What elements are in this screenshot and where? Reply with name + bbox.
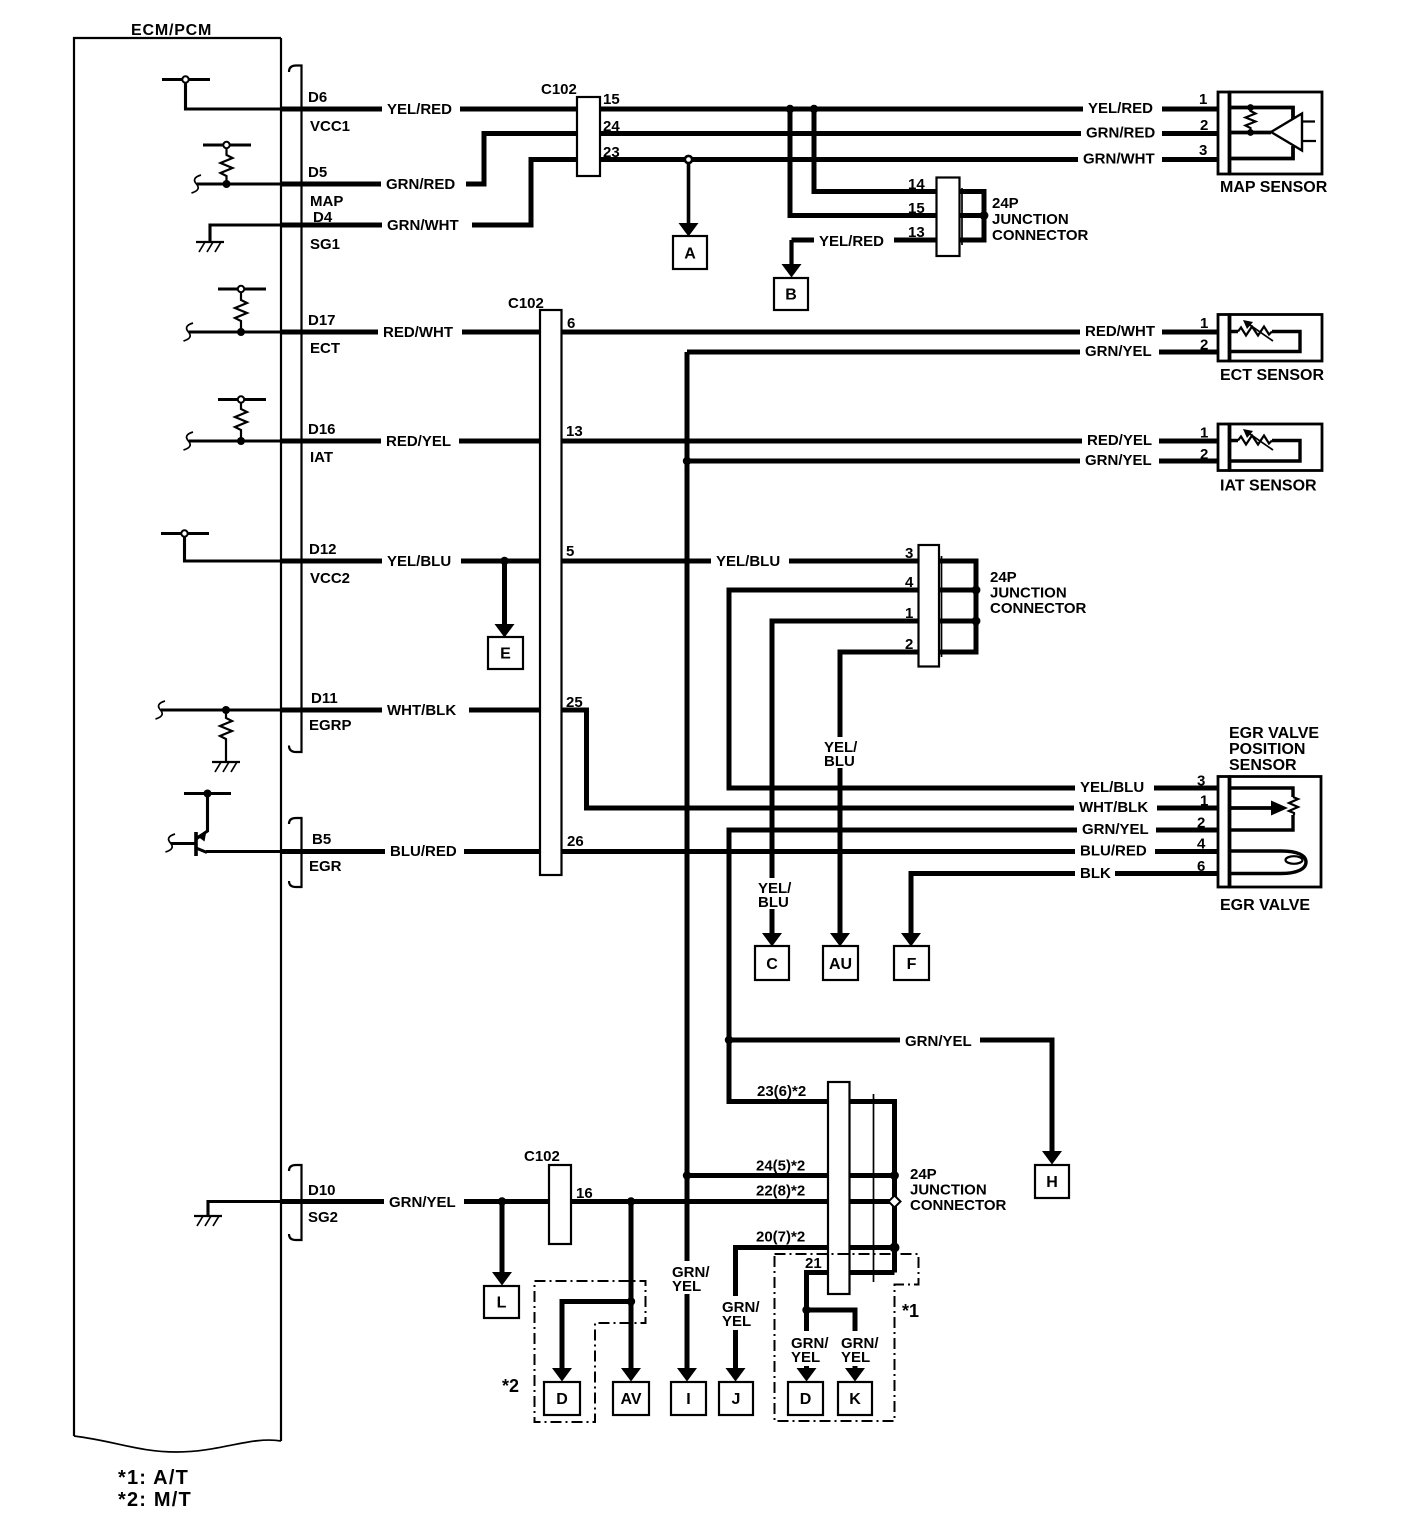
svg-text:3: 3 <box>1199 142 1207 159</box>
wire label WHT/BLK (EGR 1) <box>1074 799 1157 816</box>
svg-text:BLK: BLK <box>1080 865 1111 882</box>
node riser to IAT pin 2 <box>683 457 691 465</box>
wire label YEL/BLU (D12) <box>382 552 461 570</box>
wire JC3 pin 21 to arrows D and K <box>807 1273 895 1370</box>
wire GRN/YEL EGR sensor pin 2 down to JC3 <box>729 830 1218 1102</box>
wire D17 internal <box>189 330 281 333</box>
svg-text:A: A <box>684 246 696 263</box>
wire drop to arrow AV <box>629 1202 634 1370</box>
svg-text:D6: D6 <box>308 89 327 106</box>
EGR valve + position sensor <box>1218 777 1321 888</box>
dash-dot box *1 A/T group <box>775 1254 919 1421</box>
ground SG1 <box>196 242 224 252</box>
wire drop to arrow E <box>502 561 507 625</box>
svg-text:2: 2 <box>1197 815 1205 832</box>
wire GRN/WHT C102-23 to MAP pin 3 <box>281 160 1218 226</box>
svg-text:*2: *2 <box>502 1376 519 1396</box>
svg-text:CONNECTOR: CONNECTOR <box>910 1197 1007 1214</box>
break hook D16 <box>184 432 194 450</box>
svg-text:EGR: EGR <box>309 858 342 875</box>
wire label BLU/RED (B5) <box>385 842 464 860</box>
node drop to arrow L <box>498 1197 506 1205</box>
svg-text:SG2: SG2 <box>308 1209 338 1226</box>
svg-text:GRN/RED: GRN/RED <box>386 176 455 193</box>
svg-text:C102: C102 <box>541 81 577 98</box>
EGR solenoid coil <box>1229 851 1306 874</box>
resistor R-EGRP <box>220 710 232 762</box>
wire label RED/YEL (IAT 1) <box>1082 432 1159 449</box>
svg-text:BLU: BLU <box>758 894 789 911</box>
op-amp symbol inside MAP <box>1271 114 1302 151</box>
svg-text:VCC1: VCC1 <box>310 118 350 135</box>
JC2 bus <box>939 561 976 652</box>
wire GRN/YEL main riser down to arrow I <box>685 352 690 1369</box>
resistor inside MAP <box>1246 108 1256 133</box>
JC1 bus <box>960 192 985 241</box>
wire GRN/YEL to IAT pin 2 <box>687 459 1218 464</box>
svg-text:GRN/YEL: GRN/YEL <box>1082 821 1149 838</box>
arrow E <box>495 624 515 638</box>
node ECT junction <box>237 328 245 336</box>
svg-text:1: 1 <box>1200 315 1208 332</box>
svg-text:24P: 24P <box>990 569 1017 586</box>
svg-text:GRN/YEL: GRN/YEL <box>905 1033 972 1050</box>
svg-text:2: 2 <box>1200 446 1208 463</box>
arrow D (A/T) <box>797 1368 817 1382</box>
svg-text:CONNECTOR: CONNECTOR <box>992 227 1089 244</box>
arrow F <box>901 933 921 947</box>
svg-text:YEL: YEL <box>791 1349 820 1366</box>
svg-text:6: 6 <box>567 315 575 332</box>
wire label YEL/RED (D6) <box>382 100 460 118</box>
svg-text:ECT SENSOR: ECT SENSOR <box>1220 367 1324 384</box>
wire label GRN/YEL (to D A/T) <box>786 1331 837 1366</box>
wire SG1 internal <box>210 225 281 242</box>
wire drop to arrow A <box>685 156 692 163</box>
power rail (IAT pull-up) <box>218 396 266 402</box>
svg-text:C102: C102 <box>524 1148 560 1165</box>
wire label GRN/YEL (EGR 2) <box>1077 821 1156 838</box>
node JC3 bus 20(7) <box>890 1243 900 1253</box>
svg-text:24: 24 <box>603 118 620 135</box>
svg-text:1: 1 <box>905 605 913 622</box>
svg-text:B: B <box>785 287 797 304</box>
node JC3 bus 24(5) <box>890 1171 899 1180</box>
svg-text:1: 1 <box>1200 425 1208 442</box>
node drop to arrow E <box>500 557 508 565</box>
wire label YEL/RED (JC1 pin13) <box>814 231 894 249</box>
junction connector JC3 24P <box>828 1082 850 1294</box>
wire label BLU/RED (EGR 4) <box>1075 843 1155 860</box>
wire label BLK (EGR 6) <box>1075 865 1115 882</box>
node drop to arrow AV <box>627 1197 635 1205</box>
arrow D (M/T) <box>552 1368 572 1382</box>
wire label GRN/YEL (to I) <box>667 1261 717 1294</box>
wire label RED/YEL (D16) <box>381 432 459 450</box>
break hook D17 <box>184 323 194 341</box>
svg-text:J: J <box>732 1391 741 1408</box>
break hook D11 <box>156 701 166 719</box>
svg-text:MAP SENSOR: MAP SENSOR <box>1220 179 1328 196</box>
arrow I <box>677 1368 697 1382</box>
IAT sensor <box>1218 424 1322 471</box>
wire B5 internal <box>206 850 281 853</box>
wire D6 YEL/RED to MAP pin 1 <box>281 107 1218 112</box>
wire drop to JC1 pin 14 <box>814 109 937 192</box>
svg-text:3: 3 <box>1197 773 1205 790</box>
svg-text:K: K <box>849 1391 861 1408</box>
node on YEL/RED (drop to JC1 pin 14) <box>810 105 818 113</box>
svg-text:13: 13 <box>908 224 925 241</box>
wire label GRN/YEL (to H) <box>900 1031 980 1049</box>
svg-text:D: D <box>800 1391 812 1408</box>
node JC3 bus 22(8) diamond <box>889 1196 901 1208</box>
power rail VCC1 <box>162 76 281 109</box>
connector C102 (top) <box>577 97 600 176</box>
svg-text:2: 2 <box>1200 117 1208 134</box>
node branch to arrow D (M/T) <box>627 1297 635 1305</box>
wire GRN/YEL to arrow H <box>729 1040 1052 1152</box>
ECM pin header bracket (B5) <box>289 818 302 887</box>
arrow H <box>1042 1151 1062 1165</box>
svg-text:ECT: ECT <box>310 340 340 357</box>
ECM/PCM box U1 <box>74 38 281 1452</box>
wire branch to arrow D (M/T) <box>562 1302 631 1370</box>
svg-text:*2: M/T: *2: M/T <box>118 1489 192 1511</box>
wire D5 internal <box>197 182 281 185</box>
wire 20(7)*2 to JC3 and arrow J <box>736 1248 895 1370</box>
svg-text:16: 16 <box>576 1185 593 1202</box>
thermistor ECT <box>1238 327 1272 336</box>
wire YEL/RED JC1 pin 13 to arrow B <box>792 238 937 243</box>
node riser to 24(5)*2 <box>683 1171 691 1179</box>
svg-text:YEL/RED: YEL/RED <box>819 233 884 250</box>
node JC2 bus pin1 <box>972 617 981 626</box>
wire B5 BLU/RED to EGR valve pin 4 <box>281 849 1218 854</box>
svg-text:SENSOR: SENSOR <box>1229 757 1297 774</box>
wire label RED/WHT (D17) <box>378 323 462 341</box>
svg-text:WHT/BLK: WHT/BLK <box>1079 799 1148 816</box>
svg-text:EGR VALVE: EGR VALVE <box>1229 725 1319 742</box>
wire D11 WHT/BLK to C102-25 then EGR sensor pin 1 <box>281 710 1218 808</box>
svg-text:23: 23 <box>603 144 620 161</box>
arrow AU <box>830 933 850 947</box>
svg-text:D11: D11 <box>311 690 338 707</box>
wire YEL/RED drop to JC1 pin 15 <box>790 109 937 216</box>
svg-text:23(6)*2: 23(6)*2 <box>757 1083 806 1100</box>
svg-text:BLU/RED: BLU/RED <box>1080 843 1147 860</box>
wire D16 RED/YEL to IAT pin 1 <box>281 439 1218 444</box>
svg-text:22(8)*2: 22(8)*2 <box>756 1183 805 1200</box>
junction connector JC2 24P <box>919 545 940 667</box>
wire label GRN/WHT (D4) <box>382 216 472 234</box>
svg-text:ECM/PCM: ECM/PCM <box>131 22 212 39</box>
svg-text:L: L <box>497 1295 507 1312</box>
svg-text:YEL/BLU: YEL/BLU <box>1080 779 1144 796</box>
svg-text:D10: D10 <box>308 1182 336 1199</box>
arrow C <box>762 933 782 947</box>
junction connector JC1 24P <box>937 178 960 257</box>
svg-text:EGRP: EGRP <box>309 717 352 734</box>
arrow J <box>726 1368 746 1382</box>
svg-text:YEL/BLU: YEL/BLU <box>387 553 451 570</box>
dash-dot box *2 M/T group <box>535 1281 646 1422</box>
node MAP junction <box>223 180 231 188</box>
resistor R-IAT <box>235 402 247 441</box>
wire JC2 pin 2 down to arrow AU <box>840 652 919 934</box>
wiper arrow <box>1229 806 1272 810</box>
node GRN/YEL branch to arrow H <box>725 1036 733 1044</box>
wire 24(5)*2 to JC3 <box>687 1173 895 1178</box>
arrow A <box>679 223 699 237</box>
wire GRN/RED C102-24 to MAP pin 2 <box>281 134 1218 185</box>
svg-text:1: 1 <box>1200 793 1208 810</box>
arrow AV <box>621 1368 641 1382</box>
svg-text:WHT/BLK: WHT/BLK <box>387 702 456 719</box>
svg-text:13: 13 <box>566 423 583 440</box>
connector C102 (middle tall) <box>540 310 562 875</box>
wire label GRN/YEL (ECT 2) <box>1080 343 1159 360</box>
ground EGRP <box>212 762 240 772</box>
wire label YEL/RED (MAP 1) <box>1083 100 1162 117</box>
node JC2 bus pin4 <box>972 586 981 595</box>
svg-text:6: 6 <box>1197 858 1205 875</box>
power rail (MAP pull-up) <box>203 142 251 148</box>
svg-text:RED/WHT: RED/WHT <box>1085 323 1155 340</box>
resistor R-ECT <box>235 292 247 332</box>
svg-text:25: 25 <box>566 694 583 711</box>
JC3 bus <box>850 1102 895 1273</box>
svg-text:4: 4 <box>1197 836 1206 853</box>
wire label YEL/BLU (to AU) <box>819 737 866 768</box>
svg-text:1: 1 <box>1199 91 1207 108</box>
svg-text:26: 26 <box>567 833 584 850</box>
svg-text:14: 14 <box>908 176 925 193</box>
svg-text:2: 2 <box>1200 337 1208 354</box>
MAP sensor <box>1218 92 1322 174</box>
transistor Q1 (EGR driver) <box>166 790 232 857</box>
svg-text:SG1: SG1 <box>310 236 340 253</box>
node EGRP junction <box>222 706 230 714</box>
wire label RED/WHT (ECT 1) <box>1080 323 1162 340</box>
svg-text:YEL: YEL <box>672 1278 701 1295</box>
svg-text:YEL/RED: YEL/RED <box>387 101 452 118</box>
svg-text:D: D <box>556 1391 568 1408</box>
node JC1 bus <box>980 211 989 220</box>
svg-text:15: 15 <box>603 91 620 108</box>
svg-text:B5: B5 <box>312 831 331 848</box>
svg-text:GRN/WHT: GRN/WHT <box>1083 151 1155 168</box>
wire SG2 internal <box>208 1202 281 1217</box>
svg-text:GRN/YEL: GRN/YEL <box>1085 343 1152 360</box>
svg-text:5: 5 <box>566 543 574 560</box>
svg-text:H: H <box>1046 1174 1058 1191</box>
wire label GRN/RED (MAP 2) <box>1081 125 1162 142</box>
resistor R-MAP <box>221 148 233 184</box>
svg-text:I: I <box>686 1391 690 1408</box>
svg-text:D4: D4 <box>313 209 333 226</box>
svg-text:*1: A/T: *1: A/T <box>118 1467 189 1489</box>
svg-text:RED/YEL: RED/YEL <box>386 433 451 450</box>
svg-text:C102: C102 <box>508 295 544 312</box>
svg-text:BLU/RED: BLU/RED <box>390 843 457 860</box>
svg-text:VCC2: VCC2 <box>310 570 350 587</box>
svg-text:JUNCTION: JUNCTION <box>990 585 1067 602</box>
junction connector JC1 shadow outline <box>961 188 963 245</box>
svg-text:4: 4 <box>905 574 914 591</box>
svg-text:RED/YEL: RED/YEL <box>1087 432 1152 449</box>
node on YEL/RED (drop to JC1 pin 15) <box>786 105 794 113</box>
svg-text:E: E <box>500 646 511 663</box>
svg-text:24P: 24P <box>992 195 1019 212</box>
svg-text:GRN/YEL: GRN/YEL <box>1085 452 1152 469</box>
svg-text:F: F <box>907 956 917 973</box>
wire JC2 pin 1 down to arrow C <box>772 621 919 934</box>
wire BLK EGR valve pin 6 to arrow F <box>911 874 1218 935</box>
svg-text:POSITION: POSITION <box>1229 741 1305 758</box>
wire label YEL/BLU (to C) <box>753 878 800 909</box>
wire D10 GRN/YEL 22(8)*2 to JC3 <box>281 1199 895 1204</box>
power rail VCC2 <box>161 530 281 561</box>
svg-text:21: 21 <box>805 1255 822 1272</box>
ground SG2 <box>194 1216 222 1226</box>
svg-text:YEL: YEL <box>841 1349 870 1366</box>
svg-text:20(7)*2: 20(7)*2 <box>756 1229 805 1246</box>
wire split to arrow K <box>807 1310 856 1369</box>
junction connector JC3 shadow outline <box>873 1094 875 1282</box>
svg-text:MAP: MAP <box>310 193 343 210</box>
svg-text:*1: *1 <box>902 1301 919 1321</box>
wire label GRN/YEL (D10) <box>384 1192 464 1211</box>
svg-text:AV: AV <box>620 1391 641 1408</box>
svg-text:YEL/BLU: YEL/BLU <box>716 553 780 570</box>
wire D12 YEL/BLU to JC2 pin 3 <box>281 559 919 564</box>
wire label WHT/BLK (D11) <box>382 701 469 719</box>
svg-text:D5: D5 <box>308 164 327 181</box>
svg-text:24(5)*2: 24(5)*2 <box>756 1158 805 1175</box>
svg-text:D12: D12 <box>309 541 337 558</box>
svg-text:YEL/RED: YEL/RED <box>1088 100 1153 117</box>
svg-text:GRN/RED: GRN/RED <box>1086 125 1155 142</box>
arrow K <box>845 1368 865 1382</box>
svg-text:24P: 24P <box>910 1166 937 1183</box>
svg-text:C: C <box>766 956 778 973</box>
wire label GRN/YEL (IAT 2) <box>1080 452 1159 469</box>
svg-text:JUNCTION: JUNCTION <box>992 211 1069 228</box>
svg-text:YEL: YEL <box>722 1313 751 1330</box>
svg-text:BLU: BLU <box>824 753 855 770</box>
svg-text:D17: D17 <box>308 312 336 329</box>
svg-text:D16: D16 <box>308 421 336 438</box>
wire D11 internal <box>161 708 281 711</box>
wire drop to arrow L <box>500 1202 505 1274</box>
svg-text:IAT SENSOR: IAT SENSOR <box>1220 478 1317 495</box>
arrow B <box>782 264 802 278</box>
position sensor resistor track <box>1229 788 1293 830</box>
wire GRN/YEL riser top to ECT pin 2 <box>687 350 1218 355</box>
wire label GRN/YEL (to K) <box>837 1331 887 1366</box>
wire D16 internal <box>189 439 281 442</box>
wire label GRN/WHT (MAP 3) <box>1078 151 1162 168</box>
wire JC2 pin 4 YEL/BLU to EGR sensor pin 3 <box>729 590 1218 788</box>
power rail (ECT pull-up) <box>218 286 266 292</box>
ECM pin header bracket (D10) <box>289 1165 302 1240</box>
break hook D5 <box>192 175 202 193</box>
svg-text:GRN/WHT: GRN/WHT <box>387 217 459 234</box>
svg-text:JUNCTION: JUNCTION <box>910 1182 987 1199</box>
arrow L <box>492 1272 512 1286</box>
node pin21 split <box>802 1306 810 1314</box>
connector C102 (bottom) <box>549 1165 571 1244</box>
svg-text:EGR VALVE: EGR VALVE <box>1220 897 1310 914</box>
svg-text:RED/WHT: RED/WHT <box>383 324 453 341</box>
wire label YEL/BLU (mid) <box>711 552 789 570</box>
svg-text:2: 2 <box>905 636 913 653</box>
svg-text:3: 3 <box>905 545 913 562</box>
wire label GRN/YEL (to J) <box>717 1296 767 1330</box>
svg-text:CONNECTOR: CONNECTOR <box>990 600 1087 617</box>
node IAT junction <box>237 437 245 445</box>
junction connector JC2 shadow outline <box>941 556 943 657</box>
svg-text:AU: AU <box>829 956 852 973</box>
svg-text:GRN/YEL: GRN/YEL <box>389 1194 456 1211</box>
ECT sensor <box>1218 315 1322 362</box>
ECM pin header bracket (top, D6-D11) <box>289 66 302 753</box>
svg-text:IAT: IAT <box>310 449 333 466</box>
thermistor IAT <box>1238 436 1272 445</box>
wire label YEL/BLU (EGR 3) <box>1075 779 1154 796</box>
svg-text:15: 15 <box>908 200 925 217</box>
wire label GRN/RED (D5) <box>381 175 466 193</box>
wire D17 RED/WHT to ECT pin 1 <box>281 330 1218 335</box>
